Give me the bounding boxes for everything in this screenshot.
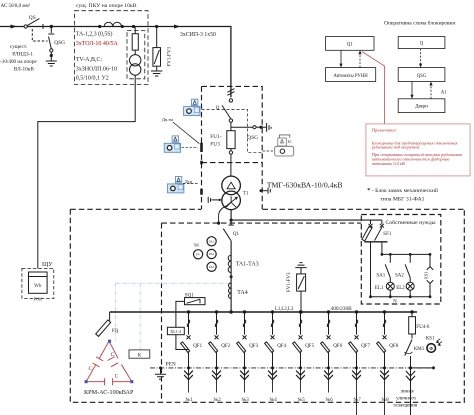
svg-text:Оперативна схема блокировки: Оперативна схема блокировки bbox=[384, 20, 455, 27]
svg-text:АС 50/8,0 мм²: АС 50/8,0 мм² bbox=[1, 3, 31, 9]
svg-text:QF6: QF6 bbox=[333, 344, 342, 349]
svg-text:линия: линия bbox=[401, 389, 415, 395]
svg-text:Автоматы РУНН: Автоматы РУНН bbox=[333, 74, 368, 79]
svg-text:Т1: Т1 bbox=[243, 192, 249, 197]
svg-text:XL1-2: XL1-2 bbox=[170, 329, 181, 334]
svg-text:500: 500 bbox=[194, 244, 200, 248]
svg-text:QF4: QF4 bbox=[277, 344, 286, 349]
svg-text:А1: А1 bbox=[441, 90, 447, 95]
svg-text:типа МБГ 31-ФА1: типа МБГ 31-ФА1 bbox=[380, 196, 424, 202]
svg-text:PEN: PEN bbox=[166, 361, 176, 367]
svg-text:KS1: KS1 bbox=[426, 337, 435, 342]
svg-text:N: N bbox=[393, 300, 397, 305]
svg-text:0,5/10/0,1 У2: 0,5/10/0,1 У2 bbox=[76, 76, 109, 82]
svg-text:QS: QS bbox=[29, 15, 36, 21]
svg-text:ТV-А,В,С:: ТV-А,В,С: bbox=[76, 57, 103, 63]
svg-text:Q: Q bbox=[420, 42, 424, 47]
svg-text:FU1-: FU1- bbox=[210, 134, 222, 140]
svg-text:ТМГ-630кВА-10/0,4кВ: ТМГ-630кВА-10/0,4кВ bbox=[267, 181, 343, 190]
svg-text:-10/400 на опоре: -10/400 на опоре bbox=[0, 59, 37, 65]
svg-text:QF3: QF3 bbox=[249, 344, 258, 349]
svg-text:№6: №6 bbox=[326, 397, 334, 403]
svg-text:рубильника под нагрузкой.: рубильника под нагрузкой. bbox=[371, 145, 421, 150]
svg-text:№1: №1 bbox=[186, 397, 194, 403]
svg-text:L1,L2,L3: L1,L2,L3 bbox=[275, 307, 294, 312]
svg-text:QF7: QF7 bbox=[361, 344, 370, 349]
svg-text:ТА-1,2,3 (0,5S): ТА-1,2,3 (0,5S) bbox=[76, 31, 113, 38]
svg-text:ЩУ: ЩУ bbox=[42, 261, 53, 268]
svg-text:EL1: EL1 bbox=[375, 286, 384, 291]
svg-text:К1: К1 bbox=[288, 140, 292, 144]
svg-text:РЛНДЗ-1: РЛНДЗ-1 bbox=[12, 52, 33, 58]
svg-text:Wh: Wh bbox=[34, 284, 42, 289]
svg-text:Q1: Q1 bbox=[347, 43, 353, 48]
svg-text:Примечание:: Примечание: bbox=[371, 127, 398, 132]
svg-text:3хСИП-3 1х50: 3хСИП-3 1х50 bbox=[180, 32, 216, 38]
svg-text:ТА4: ТА4 bbox=[237, 290, 248, 296]
svg-text:SA1: SA1 bbox=[376, 274, 385, 279]
svg-text:QSG: QSG bbox=[54, 40, 65, 46]
svg-text:ВЛ-10кВ: ВЛ-10кВ bbox=[14, 67, 35, 73]
svg-text:Q1: Q1 bbox=[233, 232, 240, 237]
svg-text:FU4-6: FU4-6 bbox=[416, 325, 430, 330]
svg-text:Двери: Двери bbox=[415, 105, 428, 110]
svg-text:освещения: освещения bbox=[394, 403, 418, 409]
svg-text:3хЗНОЛП.06-10: 3хЗНОЛП.06-10 bbox=[76, 66, 117, 72]
svg-text:EL2: EL2 bbox=[396, 286, 405, 291]
svg-text:Ф: Ф bbox=[429, 346, 433, 351]
svg-text:№4: №4 bbox=[270, 397, 278, 403]
svg-text:QF2: QF2 bbox=[221, 344, 230, 349]
svg-text:3хТОЛ-10 40/5А: 3хТОЛ-10 40/5А bbox=[76, 41, 119, 47]
svg-text:№3: №3 bbox=[242, 397, 250, 403]
svg-text:XS1: XS1 bbox=[424, 271, 429, 280]
svg-text:FU3: FU3 bbox=[210, 141, 220, 147]
svg-text:сущ. ПКУ на опоре 10кВ: сущ. ПКУ на опоре 10кВ bbox=[76, 3, 137, 9]
svg-text:FQ: FQ bbox=[112, 329, 119, 334]
svg-text:400/230В: 400/230В bbox=[331, 306, 353, 312]
svg-text:КРМ-АС-100кВАР: КРМ-АС-100кВАР bbox=[84, 389, 134, 396]
svg-text:QSG: QSG bbox=[417, 74, 427, 79]
svg-text:Q: Q bbox=[216, 106, 220, 111]
svg-text:уличного: уличного bbox=[396, 396, 416, 402]
svg-text:№7: №7 bbox=[354, 397, 362, 403]
svg-text:FV1-FV3: FV1-FV3 bbox=[287, 272, 292, 292]
svg-text:PA2: PA2 bbox=[209, 252, 215, 256]
svg-text:№8: №8 bbox=[382, 397, 390, 403]
svg-text:SA2: SA2 bbox=[395, 274, 404, 279]
svg-text:QF5: QF5 bbox=[305, 344, 314, 349]
svg-text:PA3: PA3 bbox=[209, 265, 215, 269]
svg-text:* - Блок замок механический: * - Блок замок механический bbox=[367, 187, 438, 194]
svg-text:сущест.: сущест. bbox=[10, 44, 27, 50]
svg-text:KM1: KM1 bbox=[414, 347, 425, 352]
svg-text:PA1: PA1 bbox=[209, 239, 215, 243]
svg-text:QF1: QF1 bbox=[193, 344, 202, 349]
svg-text:QF8: QF8 bbox=[389, 344, 398, 349]
svg-text:№5: №5 bbox=[298, 397, 306, 403]
svg-text:SF1: SF1 bbox=[383, 232, 392, 237]
svg-text:Собственные нужды: Собственные нужды bbox=[386, 219, 436, 226]
svg-text:SQ1: SQ1 bbox=[185, 293, 194, 298]
svg-text:№2: №2 bbox=[214, 397, 222, 403]
svg-text:ТА1-ТА3: ТА1-ТА3 bbox=[236, 261, 259, 267]
svg-text:РОК: РОК bbox=[33, 296, 42, 301]
svg-text:FV1-FV3: FV1-FV3 bbox=[168, 47, 173, 67]
svg-text:QSG: QSG bbox=[247, 135, 258, 141]
